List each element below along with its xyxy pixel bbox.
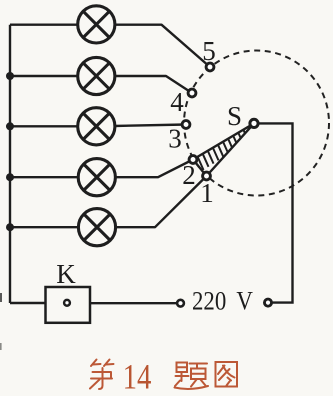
scan artifact left edge upper <box>0 293 2 302</box>
svg-text:S: S <box>227 101 242 131</box>
lamp L2 <box>78 57 115 94</box>
junction node lamp4 <box>6 173 14 181</box>
caption char 图 <box>216 362 238 387</box>
contact 1 <box>203 172 211 180</box>
scan artifact left edge lower <box>0 343 2 350</box>
caption: hand-drawn red CJK "第 14 题图" <box>90 358 237 396</box>
caption char 题 <box>175 363 209 389</box>
svg-text:V: V <box>236 287 253 316</box>
wire lamp2 to contact 4 <box>114 76 193 93</box>
junction node lamp5 <box>6 223 14 231</box>
svg-text:2: 2 <box>182 160 196 190</box>
svg-text:4: 4 <box>170 87 184 117</box>
terminal left of 220V <box>177 300 184 307</box>
wire lamp4 left <box>10 176 80 178</box>
svg-text:K: K <box>56 259 76 289</box>
wire lamp1 to contact 5 <box>114 25 211 67</box>
contact 2 <box>189 156 197 164</box>
wire lamp5 left <box>10 226 80 228</box>
svg-text:3: 3 <box>168 124 182 154</box>
pivot S contact <box>250 119 258 127</box>
contact 5 <box>206 63 214 71</box>
wire left bus <box>9 25 11 303</box>
wire lamp2 left <box>10 75 80 77</box>
junction node lamp3 <box>6 122 14 130</box>
lamp L3 <box>78 108 115 145</box>
contact 4 <box>188 89 196 97</box>
dashed selector circle <box>184 51 329 196</box>
caption char 第 <box>90 360 114 390</box>
wire pivot S to right rail down to right terminal <box>254 123 293 302</box>
lamp L1 <box>78 6 115 43</box>
svg-text:1: 1 <box>200 178 214 208</box>
caption digits 14 <box>123 358 152 396</box>
switch K box <box>46 287 91 323</box>
label 220 V <box>192 287 253 316</box>
wire lamp3 to contact 3 <box>114 125 187 127</box>
wiper wedge of selector S <box>193 117 259 176</box>
wire lamp1 left <box>10 24 80 26</box>
wire lamp4 to contact 2 <box>114 160 193 178</box>
wire bottom left bus to switch K <box>10 302 46 304</box>
wire lamp3 left <box>10 125 80 127</box>
svg-text:220: 220 <box>192 287 226 316</box>
wire switch K to left terminal <box>90 302 181 304</box>
contact 3 <box>182 121 190 129</box>
junction node lamp2 <box>6 72 14 80</box>
svg-text:5: 5 <box>202 36 216 66</box>
wire lamp5 to contact 1 <box>114 176 207 227</box>
terminal right of 220V <box>264 299 271 306</box>
lamp L4 <box>78 159 115 196</box>
svg-text:14: 14 <box>123 358 152 396</box>
switch K inner contact <box>64 300 70 306</box>
lamp L5 <box>78 209 115 246</box>
